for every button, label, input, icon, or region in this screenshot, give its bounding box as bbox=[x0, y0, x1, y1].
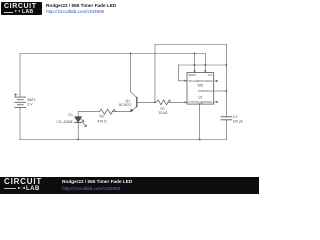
header branding bbox=[0, 0, 259, 18]
node base / feedback junction bbox=[154, 102, 156, 104]
wire right rail upper bbox=[225, 45, 227, 117]
svg-text:DISCHARGE: DISCHARGE bbox=[198, 80, 213, 83]
node GND / bottom rail junction bbox=[199, 139, 201, 141]
pin stub DISCHARGE (unconnected) bbox=[214, 80, 217, 82]
header url bbox=[46, 9, 104, 14]
label BAT1 bbox=[28, 98, 244, 124]
pin arrow RESET bbox=[193, 70, 195, 72]
svg-text:33 kΩ: 33 kΩ bbox=[159, 111, 168, 115]
pin arrow VCC bbox=[204, 70, 206, 72]
node reset tap on VCC rail bbox=[194, 53, 196, 55]
svg-text:BC547C: BC547C bbox=[119, 103, 132, 107]
resistor R2 bbox=[100, 109, 116, 114]
svg-text:U1: U1 bbox=[198, 95, 202, 99]
footer title bbox=[62, 179, 132, 184]
pin stub CONTROL (unconnected) bbox=[214, 101, 217, 103]
capacitor C1 bbox=[221, 117, 232, 120]
wire battery top lead bbox=[19, 54, 21, 98]
logo chip (top) bbox=[1, 2, 42, 15]
wire THRESHOLD to right rail bbox=[214, 90, 227, 92]
wire outer feedback top bbox=[155, 44, 226, 46]
transistor Q1 BC547C bbox=[130, 92, 155, 112]
wire LED anode to R2 bbox=[78, 111, 99, 113]
svg-text:6 V: 6 V bbox=[28, 102, 34, 106]
wire battery bottom lead bbox=[19, 108, 21, 140]
wire collector up to VCC rail bbox=[130, 54, 132, 92]
svg-text:100 µF: 100 µF bbox=[233, 120, 244, 124]
wire R1 to 555 OUTPUT pin bbox=[168, 101, 187, 103]
pin stub RESET bbox=[194, 65, 196, 73]
svg-text:C1: C1 bbox=[233, 115, 237, 119]
wire VCC rail drop to pin rail bbox=[204, 54, 206, 66]
header title bbox=[46, 3, 116, 8]
footer url bbox=[62, 186, 120, 191]
wire pin header rail bbox=[178, 64, 226, 66]
pin stub VCC bbox=[204, 65, 206, 73]
pin arrow OUTPUT bbox=[185, 101, 187, 103]
LED D1 bbox=[75, 112, 87, 140]
node collector / VCC rail junction bbox=[130, 53, 132, 55]
wire VCC top rail bbox=[20, 53, 205, 55]
wire GND pin down to bottom rail bbox=[199, 104, 201, 139]
wire reset drop bbox=[194, 54, 196, 66]
svg-text:VCC: VCC bbox=[208, 74, 213, 77]
wire ground/return bottom rail bbox=[20, 139, 226, 141]
label U1 555 bbox=[197, 84, 203, 100]
label 555 pin names bbox=[188, 74, 213, 105]
node header rail junctions bbox=[194, 64, 196, 66]
IC U1 555 timer bbox=[187, 73, 214, 105]
wire right rail lower bbox=[225, 120, 227, 140]
wire R2 to emitter bbox=[113, 111, 131, 113]
logo (footer) bbox=[4, 178, 48, 192]
svg-text:555: 555 bbox=[197, 84, 203, 88]
svg-text:LTL-4236E: LTL-4236E bbox=[57, 120, 74, 124]
resistor R1 bbox=[157, 100, 171, 105]
svg-text:RESET: RESET bbox=[188, 74, 197, 77]
footer bar bbox=[0, 177, 259, 194]
node right rail / header junction bbox=[226, 64, 228, 66]
svg-text:THRESHOLD: THRESHOLD bbox=[198, 90, 213, 93]
svg-text:D1: D1 bbox=[69, 113, 73, 117]
svg-text:R2: R2 bbox=[100, 114, 104, 118]
wire feedback left leg bbox=[154, 45, 156, 103]
node threshold / right rail junction bbox=[226, 90, 228, 92]
node LED cathode / bottom rail junction bbox=[77, 139, 79, 141]
svg-text:470 Ω: 470 Ω bbox=[98, 120, 108, 124]
wire TRIGGER feed bbox=[178, 65, 187, 81]
svg-text:GND: GND bbox=[198, 102, 204, 105]
battery BAT1 bbox=[14, 93, 26, 107]
pin arrow TRIGGER bbox=[185, 80, 187, 82]
